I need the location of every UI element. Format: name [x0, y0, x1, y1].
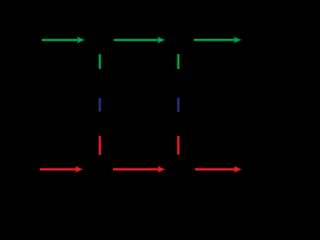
red arrow A6 (bottom row, right) — [195, 166, 241, 172]
green arrow A2 (top row, middle) — [114, 37, 165, 43]
vertical dashed line L1, blue dash — [98, 98, 101, 112]
vertical dashed line L1, green dash — [98, 54, 101, 69]
red arrow A5 (bottom row, middle) — [113, 166, 165, 172]
green arrow A3 (top row, right) — [194, 37, 241, 43]
vertical dashed line L2, green dash — [177, 54, 180, 69]
green arrow A1 (top row, left) — [42, 37, 85, 43]
vertical dashed line L2, blue dash — [177, 98, 180, 112]
vertical dashed line L1, red dash — [98, 136, 101, 155]
vertical dashed line L2, red dash — [177, 136, 180, 155]
red arrow A4 (bottom row, left) — [40, 166, 83, 172]
